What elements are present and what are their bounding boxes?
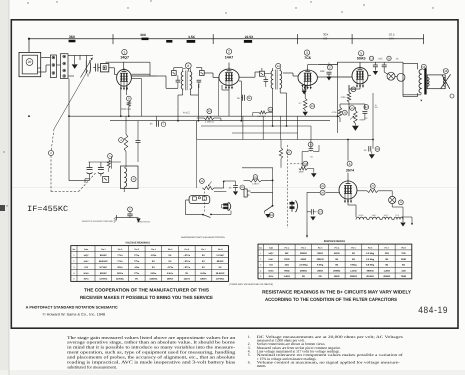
svg-text:77V●: 77V● (134, 260, 140, 263)
T1 bottom wires to bus (182, 89, 184, 95)
filament string coils (356, 217, 367, 219)
plate rail above V4 (338, 61, 404, 63)
heater return corner arrow (402, 216, 412, 218)
antenna input point (28, 38, 30, 40)
svg-text:THE COOPERATION OF THE MANUFAC: THE COOPERATION OF THE MANUFACTURER OF T… (84, 288, 209, 293)
svg-text:Pin 1: Pin 1 (284, 246, 289, 249)
bus rail lower (201, 125, 311, 127)
svg-text:Pin 6: Pin 6 (368, 246, 373, 249)
switch ground (74, 55, 76, 64)
svg-text:36X: 36X (69, 35, 76, 39)
band switch section S1B (61, 54, 69, 79)
vertical wire x337 (337, 62, 339, 133)
svg-text:Pin 3: Pin 3 (134, 248, 139, 251)
svg-text:720Ω: 720Ω (284, 258, 290, 261)
arrow down center (306, 228, 308, 238)
svg-text:Pin 8: Pin 8 (401, 246, 406, 249)
tube V2 label 2 14A7 (226, 49, 231, 54)
svg-text:200KΩ: 200KΩ (350, 275, 357, 278)
volume control ground (354, 124, 356, 126)
svg-text:0V.: 0V. (185, 272, 188, 275)
IF transformer T1 (181, 72, 183, 90)
svg-text:35Y4: 35Y4 (346, 168, 354, 172)
svg-text:33Ω: 33Ω (285, 264, 289, 267)
svg-text:Pin 8: Pin 8 (218, 248, 223, 251)
svg-text:20KΩ: 20KΩ (317, 269, 323, 272)
svg-text:Pin 1: Pin 1 (101, 248, 106, 251)
osc grid capacitor (136, 140, 141, 142)
svg-text:750Ω: 750Ω (401, 275, 407, 278)
svg-text:ments.: ments. (257, 364, 267, 368)
svg-text:-.07V●: -.07V● (184, 260, 191, 263)
output transformer T3 (419, 69, 422, 93)
osc section wires (111, 156, 113, 169)
svg-text:VOLTAGE READINGS: VOLTAGE READINGS (125, 241, 150, 244)
svg-text:8: 8 (187, 64, 189, 68)
svg-text:Pin 2: Pin 2 (118, 248, 123, 251)
capacitor C9 with switch (308, 142, 313, 147)
svg-text:0V.: 0V. (169, 254, 172, 257)
svg-text:20KΩ: 20KΩ (301, 258, 307, 261)
svg-text:50A5: 50A5 (357, 57, 366, 61)
svg-text:1.2KΩ: 1.2KΩ (350, 269, 357, 272)
filament ground (402, 220, 404, 223)
V1 plate lead (123, 62, 125, 69)
svg-text:5.6 Meg: 5.6 Meg (366, 264, 375, 267)
resistor 1MEG phono (253, 175, 257, 179)
svg-text:400~: 400~ (323, 36, 330, 40)
capacitor C2 (95, 64, 97, 72)
wire trimmer to V1 grid (109, 67, 115, 69)
svg-text:117VAC: 117VAC (99, 278, 107, 281)
svg-text:6.: 6. (248, 360, 251, 364)
T1 secondary to V2 grid (204, 72, 213, 74)
wire speaker frame down (372, 93, 374, 140)
svg-text:Pin 5: Pin 5 (168, 248, 173, 251)
wire v2 screen down (228, 96, 230, 116)
svg-text:5.: 5. (248, 353, 251, 357)
V2 pin leads (228, 63, 230, 70)
interlock socket (189, 196, 210, 204)
stage gain measurement line (29, 38, 424, 40)
svg-text:1.2KΩ: 1.2KΩ (384, 269, 391, 272)
pot return loop (214, 191, 226, 193)
svg-text:14A7: 14A7 (268, 258, 274, 261)
osc resistor small (108, 154, 113, 159)
svg-text:160V●: 160V● (167, 278, 174, 281)
phono jack (244, 189, 247, 197)
IF transformer T2 label (276, 63, 281, 68)
svg-text:IF=455KC: IF=455KC (27, 205, 68, 214)
svg-text:2.2 Meg: 2.2 Meg (366, 252, 375, 255)
T1 secondary trimmer (200, 71, 205, 76)
svg-text:22.5X: 22.5X (245, 35, 254, 39)
volume control label 15 (303, 161, 308, 166)
svg-text:0V.: 0V. (202, 254, 205, 257)
svg-text:6.4V●: 6.4V● (167, 272, 173, 275)
voltage readings table (71, 246, 229, 282)
rail junction dots (68, 115, 70, 117)
wire V3 plate to V4 grid (317, 64, 337, 66)
speaker label (443, 69, 448, 74)
svg-text:750Ω: 750Ω (284, 269, 290, 272)
svg-text:14A7: 14A7 (225, 56, 234, 60)
svg-text:160V●: 160V● (200, 278, 207, 281)
svg-text:60VAC: 60VAC (100, 254, 107, 257)
wire to output transformer (402, 62, 404, 96)
svg-text:77V●: 77V● (134, 254, 140, 257)
svg-text:5: 5 (360, 51, 362, 55)
V1 pin leads (131, 73, 150, 75)
circled label near frame (450, 94, 454, 98)
svg-text:0V.: 0V. (202, 260, 205, 263)
svg-text:107VAC: 107VAC (216, 278, 225, 281)
wire to rectifier (326, 191, 339, 193)
svg-text:0V.: 0V. (169, 260, 172, 263)
svg-text:33Ω: 33Ω (401, 269, 405, 272)
svg-text:200KΩ: 200KΩ (317, 258, 324, 261)
svg-text:500KΩ: 500KΩ (367, 269, 374, 272)
symbol legend capacitor (128, 207, 133, 212)
svg-text:-.8V●: -.8V● (134, 266, 140, 269)
band switch section S1A (50, 55, 56, 78)
IF transformer T2 (271, 71, 273, 89)
wires V2 plate to T2 (254, 72, 256, 77)
svg-text:RESISTANCE READINGS: RESISTANCE READINGS (324, 240, 345, 243)
V3 cathode ground (303, 112, 308, 116)
svg-text:0Ω: 0Ω (385, 264, 388, 267)
svg-text:0Ω: 0Ω (302, 275, 305, 278)
B+ bus pair top (232, 132, 298, 134)
volume control 500K (299, 167, 307, 170)
resistor 470K plate load (347, 92, 351, 102)
svg-text:14Q7: 14Q7 (120, 56, 129, 60)
svg-text:B-: B- (375, 104, 377, 107)
svg-text:0V.: 0V. (219, 266, 222, 269)
svg-text:484-19: 484-19 (418, 305, 448, 315)
capacitor C13 .005 (369, 56, 373, 60)
svg-text:6.4V●: 6.4V● (201, 272, 207, 275)
phono plug (291, 201, 293, 212)
svg-text:A.V.C.: A.V.C. (183, 111, 191, 114)
phono switch blade (272, 205, 274, 207)
svg-text:1: 1 (123, 50, 125, 54)
svg-text:18: 18 (444, 69, 448, 73)
V3 diode plates (302, 85, 304, 88)
svg-text:Volume control at maximum, no: Volume control at maximum, no signal app… (257, 360, 401, 364)
svg-text:77V●: 77V● (117, 254, 123, 257)
svg-text:200KΩ: 200KΩ (333, 269, 340, 272)
dashed switch gang line (287, 145, 289, 228)
AVC bus rail (110, 120, 330, 122)
V5 plate wire up (347, 173, 349, 181)
dashed link to pot (290, 163, 303, 165)
B- junction labels (320, 184, 325, 189)
svg-text:30X: 30X (140, 33, 147, 37)
resistance readings table (258, 244, 412, 279)
svg-text:77V●: 77V● (117, 260, 123, 263)
svg-text:-.07V●: -.07V● (184, 254, 191, 257)
osc padder caps (89, 161, 122, 163)
svg-text:22KΩ: 22KΩ (334, 252, 340, 255)
svg-text:0Ω: 0Ω (402, 264, 405, 267)
svg-text:77V●: 77V● (134, 272, 140, 275)
tuning capacitor C1A (85, 61, 87, 74)
svg-text:2: 2 (228, 50, 230, 54)
svg-text:0V.: 0V. (202, 266, 205, 269)
svg-text:0Ω: 0Ω (335, 264, 338, 267)
svg-text:16: 16 (422, 65, 426, 69)
svg-text:DENOTES CHASSIS GROUND: DENOTES CHASSIS GROUND (82, 220, 114, 223)
svg-text:.005: .005 (378, 57, 383, 60)
svg-text:Tube: Tube (84, 248, 88, 251)
phono switch ground (263, 211, 265, 213)
IF transformer T1 label (185, 63, 191, 69)
svg-text:0V.: 0V. (152, 260, 155, 263)
svg-text:Tube: Tube (269, 246, 273, 249)
svg-text:0Ω: 0Ω (352, 258, 355, 261)
svg-text:0V.: 0V. (152, 266, 155, 269)
wires V1 plate to T1 (149, 62, 151, 76)
tube V1 14Q7 (117, 69, 132, 86)
capacitor C14 .01 (387, 56, 391, 60)
svg-text:20: 20 (28, 60, 32, 64)
legend chassis ground symbol (115, 215, 117, 220)
svg-text:1 MEG: 1 MEG (252, 183, 259, 186)
svg-text:86.5VAC: 86.5VAC (99, 260, 108, 263)
wire avc bus junction (354, 107, 356, 110)
T2 primary trimmer (259, 71, 264, 76)
svg-text:1.: 1. (248, 335, 251, 339)
wire lamp left (384, 72, 387, 74)
T1 secondary cap (197, 79, 202, 81)
wire loop to switch (41, 57, 51, 59)
svg-text:35Y4: 35Y4 (268, 275, 274, 278)
svg-text:80VAC: 80VAC (100, 272, 107, 275)
speaker cone cross (441, 74, 451, 88)
svg-text:0V.: 0V. (135, 278, 138, 281)
tube V3 label 3 7C6 (304, 50, 309, 55)
tuning gang dashed link (48, 150, 53, 155)
svg-text:110VAC: 110VAC (149, 278, 157, 281)
B- bus rail upper (69, 115, 338, 117)
lamp companion circle (397, 73, 405, 81)
V4 pin wires (359, 62, 361, 67)
padder trimmer box (103, 176, 109, 182)
svg-text:DENOTES B-: DENOTES B- (137, 220, 151, 223)
secondary return wire (403, 94, 421, 96)
svg-text:(TAKEN WITH VACUUM TUBE VOLTME: (TAKEN WITH VACUUM TUBE VOLTMETER) (230, 283, 274, 286)
osc grid resistor (124, 134, 128, 151)
svg-text:2.2MEG: 2.2MEG (257, 115, 265, 118)
svg-text:5 Meg: 5 Meg (317, 264, 324, 267)
T1 top connections (182, 69, 184, 72)
svg-text:20KΩ: 20KΩ (317, 252, 323, 255)
svg-text:50A5: 50A5 (84, 272, 90, 275)
V1 cathode resistor 22K (126, 96, 131, 101)
T3 secondary winding (427, 78, 429, 87)
svg-text:4.7M: 4.7M (332, 111, 337, 114)
pilot lamp lower (389, 196, 396, 203)
resistor 4.7MEG avc (338, 107, 342, 117)
svg-text:0Ω: 0Ω (385, 258, 388, 261)
V3 cathode resistor (303, 98, 307, 110)
svg-text:substituted for measurement.: substituted for measurement. (67, 364, 117, 369)
power switch on volume (186, 214, 203, 216)
svg-text:200KΩ: 200KΩ (300, 252, 307, 255)
svg-text:14Q7: 14Q7 (83, 254, 89, 257)
resistor 1MEG vertical (279, 148, 282, 159)
on-off switch dashed link (204, 192, 206, 213)
volume B- arrow (311, 173, 317, 177)
legend B- arrow (136, 218, 140, 222)
svg-text:0Ω: 0Ω (335, 258, 338, 261)
svg-text:-.07V●: -.07V● (184, 266, 191, 269)
pilot lamp (387, 72, 395, 80)
capacitor C17 to ground (327, 65, 332, 70)
svg-text:2.2 Meg: 2.2 Meg (366, 258, 375, 261)
svg-text:2.2MEG: 2.2MEG (205, 121, 214, 124)
svg-text:Pin 2: Pin 2 (301, 246, 306, 249)
resistor 2.2MEG avc second (268, 107, 273, 112)
svg-text:-10V●: -10V● (150, 254, 157, 257)
T1 primary trimmer (172, 71, 177, 76)
rectifier label 6 35Y4 (347, 161, 352, 166)
svg-text:50A5: 50A5 (268, 269, 274, 272)
svg-text:14: 14 (277, 64, 281, 68)
svg-text:14A7: 14A7 (84, 260, 90, 263)
svg-text:Pin 3: Pin 3 (318, 246, 323, 249)
tone pot resistor (200, 179, 205, 184)
svg-text:RECEIVER MAKES IT POSSIBLE TO: RECEIVER MAKES IT POSSIBLE TO BRING YOU … (80, 295, 213, 300)
B+ feed wire (311, 139, 373, 141)
svg-text:7C6: 7C6 (304, 56, 311, 60)
tube V4 50A5 (352, 68, 368, 84)
svg-text:14Q7: 14Q7 (268, 252, 274, 255)
svg-text:Pin 7: Pin 7 (201, 248, 206, 251)
svg-text:550Ω: 550Ω (334, 275, 340, 278)
V3 pin wires (307, 65, 309, 71)
svg-text:2.6 Meg: 2.6 Meg (299, 264, 308, 267)
svg-text:RESISTANCE READINGS IN THE B+: RESISTANCE READINGS IN THE B+ CIRCUITS M… (262, 289, 412, 294)
svg-text:20V●: 20V● (117, 266, 123, 269)
svg-text:3.5X: 3.5X (188, 35, 196, 39)
svg-text:17: 17 (328, 65, 332, 69)
output secondary return (420, 95, 422, 102)
volume control R-vol (350, 106, 355, 111)
svg-text:33Ω: 33Ω (385, 252, 389, 255)
svg-text:Pin 5: Pin 5 (351, 246, 356, 249)
capacitor C-line to ground (310, 209, 312, 214)
svg-text:RADIO/PHONO SWITCH IN RADIO PO: RADIO/PHONO SWITCH IN RADIO POSITION. (181, 236, 225, 239)
svg-text:3: 3 (306, 51, 308, 55)
coupling capacitor C12 (364, 105, 369, 110)
svg-text:0Ω: 0Ω (319, 275, 322, 278)
svg-text:6: 6 (349, 162, 351, 166)
svg-text:1.1VAC: 1.1VAC (216, 254, 224, 257)
svg-text:ACCORDING TO THE CONDITION OF: ACCORDING TO THE CONDITION OF THE FILTER… (265, 297, 397, 302)
svg-text:200KΩ: 200KΩ (383, 275, 390, 278)
svg-text:70Ω: 70Ω (401, 252, 405, 255)
svg-text:60VAC: 60VAC (217, 260, 224, 263)
loop antenna L1 (19, 52, 41, 76)
T2 primary cap (264, 79, 269, 81)
svg-text:0Ω: 0Ω (352, 252, 355, 255)
svg-text:110V●: 110V● (117, 272, 124, 275)
svg-text:1.4KΩ: 1.4KΩ (284, 275, 291, 278)
svg-text:A PHOTOFACT STANDARD NOTATION: A PHOTOFACT STANDARD NOTATION SCHEMATIC (26, 306, 118, 310)
svg-text:500K: 500K (299, 171, 304, 174)
line cord plug (227, 203, 229, 211)
svg-text:470K: 470K (340, 96, 346, 99)
V5 cathode wires (357, 190, 367, 192)
rectifier tube V5 35Y4 (339, 181, 357, 199)
schematic border frame (11, 20, 458, 328)
svg-text:Pin 6: Pin 6 (185, 248, 190, 251)
speaker voice coil (443, 78, 445, 87)
bus rail B+ (197, 139, 311, 141)
surge resistor 47 ohm (370, 184, 375, 189)
svg-text:2.6V●: 2.6V● (150, 272, 156, 275)
resistor 2.2MEG avc filter (207, 109, 212, 114)
svg-text:-.07V●: -.07V● (167, 266, 174, 269)
trimmer box component (101, 64, 109, 72)
svg-text:110VAC: 110VAC (116, 278, 124, 281)
tube V4 label 5 50A5 (359, 51, 364, 56)
svg-text:26.5VAC: 26.5VAC (216, 272, 225, 275)
wire switch down to bus (68, 79, 70, 181)
phono wires (251, 191, 273, 193)
gain label 455KC box (166, 40, 172, 43)
svg-text:20.5KΩ: 20.5KΩ (366, 275, 374, 278)
wire switch to tuning (56, 64, 60, 66)
speaker circuit loop (427, 75, 445, 89)
oscillator coil L2 (121, 166, 139, 189)
svg-text:Pin 7: Pin 7 (385, 246, 390, 249)
svg-text:AAF: AAF (320, 70, 325, 73)
svg-text:121V●: 121V● (184, 278, 191, 281)
output transformer T3 label (421, 64, 426, 69)
svg-text:120Ω: 120Ω (401, 258, 407, 261)
svg-text:200KΩ: 200KΩ (300, 269, 307, 272)
tube V2 14A7 (219, 69, 239, 85)
T1 primary padder cap (176, 79, 181, 81)
heater dropping wires (402, 207, 404, 220)
vertical wire x196 (196, 121, 198, 140)
svg-text:6.7VAC: 6.7VAC (100, 266, 108, 269)
T2 bottom wires (272, 89, 274, 127)
tube V1 label 1 14Q7 (122, 49, 127, 54)
T2 top wires (272, 68, 274, 71)
svg-text:© Howard W. Sams & Co., Inc. 1: © Howard W. Sams & Co., Inc. 1948 (43, 313, 106, 317)
svg-text:5 Meg: 5 Meg (350, 264, 357, 267)
svg-text:35Y4: 35Y4 (84, 278, 90, 281)
tube V3 7C6 (298, 70, 317, 85)
T2 secondary to V3 (283, 72, 293, 74)
svg-text:48%: 48% (389, 36, 395, 40)
